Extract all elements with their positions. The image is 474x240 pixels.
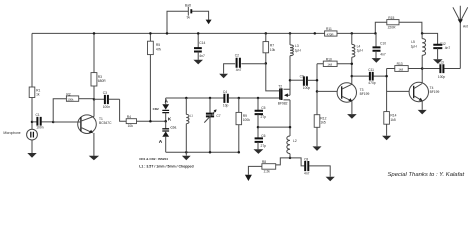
svg-text:C2: C2 bbox=[235, 54, 239, 58]
inductor L4 bbox=[351, 32, 364, 57]
capacitor C4 bbox=[223, 90, 229, 107]
resistor R1 bbox=[29, 87, 40, 98]
wire tank top rail bbox=[166, 97, 224, 99]
transistor T3 BF199 bbox=[337, 83, 369, 102]
resistor R5 bbox=[148, 32, 162, 54]
svg-text:4n7: 4n7 bbox=[236, 68, 242, 72]
ground T3 emitter bbox=[347, 114, 357, 119]
svg-text:1μH: 1μH bbox=[411, 44, 418, 48]
wire R8 to ground bbox=[248, 166, 262, 174]
microphone MIC1 bbox=[3, 129, 37, 140]
node K bbox=[164, 120, 167, 123]
svg-text:1k: 1k bbox=[36, 93, 40, 97]
ground tank rail bbox=[182, 151, 191, 160]
resistor R9 bbox=[236, 97, 250, 154]
capacitor C9 bbox=[300, 75, 311, 90]
capacitor C5 bbox=[255, 97, 267, 119]
transistor T1 BC547C bbox=[53, 115, 112, 134]
ground mic bbox=[31, 140, 33, 153]
capacitor C1 bbox=[32, 113, 53, 130]
svg-text:A: A bbox=[159, 139, 163, 145]
wire T2 source down bbox=[289, 100, 291, 136]
svg-text:C11: C11 bbox=[368, 68, 374, 72]
capacitor C11 bbox=[352, 68, 387, 85]
svg-text:CD1 & CD2 : BB204: CD1 & CD2 : BB204 bbox=[139, 157, 168, 161]
svg-text:C1: C1 bbox=[36, 113, 40, 117]
svg-text:C6: C6 bbox=[261, 134, 265, 138]
svg-text:10k: 10k bbox=[270, 48, 276, 52]
svg-text:R13: R13 bbox=[397, 62, 403, 66]
svg-text:L1 : 3.5T / 1mm / 5mm / Choppe: L1 : 3.5T / 1mm / 5mm / Chopped bbox=[139, 164, 193, 168]
wire T3 base lead bbox=[317, 90, 337, 92]
wire R3 to collector node bbox=[93, 86, 95, 99]
wire T1 collector bbox=[93, 99, 95, 116]
node C11/base junction bbox=[385, 75, 388, 78]
resistor R12 bbox=[314, 115, 326, 128]
inductor L5 bbox=[411, 32, 426, 55]
wire T4 emitter bbox=[421, 101, 423, 110]
svg-text:Ant: Ant bbox=[463, 24, 468, 28]
wire R15 raised loop bbox=[375, 22, 422, 33]
wire T3 base column bbox=[316, 64, 318, 115]
node C11 junction bbox=[351, 75, 354, 78]
node T1 base junction bbox=[52, 121, 55, 124]
node K wire junction bbox=[149, 120, 152, 123]
svg-text:4n7: 4n7 bbox=[445, 46, 451, 50]
svg-text:C7: C7 bbox=[216, 114, 220, 118]
svg-text:100p: 100p bbox=[303, 86, 311, 90]
svg-text:C4: C4 bbox=[223, 90, 227, 94]
capacitor C3 bbox=[94, 91, 120, 109]
node C2 tap bbox=[265, 62, 268, 65]
svg-text:100k: 100k bbox=[67, 97, 74, 101]
wire to R8 bbox=[276, 158, 290, 165]
svg-text:Batt: Batt bbox=[185, 3, 191, 7]
svg-text:47k: 47k bbox=[156, 48, 162, 52]
svg-text:R2: R2 bbox=[66, 92, 70, 96]
varactor CD2 bbox=[153, 98, 170, 113]
ground T4 emitter bbox=[418, 110, 427, 115]
svg-text:4n7: 4n7 bbox=[199, 54, 205, 58]
wire C9 to T3 base column bbox=[308, 79, 317, 81]
wire T4 base column bbox=[386, 69, 388, 112]
svg-text:L2: L2 bbox=[293, 139, 297, 143]
wire R4 to K node bbox=[137, 120, 166, 122]
svg-text:1μH: 1μH bbox=[357, 49, 364, 53]
wire CD2 to K bbox=[165, 113, 167, 122]
svg-text:100p: 100p bbox=[438, 75, 446, 79]
svg-text:1k5: 1k5 bbox=[390, 118, 395, 122]
inductor L1 bbox=[185, 97, 193, 152]
ground R12 bbox=[313, 146, 322, 151]
svg-text:CD2: CD2 bbox=[153, 107, 159, 111]
svg-text:220R: 220R bbox=[388, 25, 397, 29]
wire R1 to microphone bbox=[31, 98, 33, 130]
capacitor C8 bbox=[304, 158, 310, 176]
inductor L3 bbox=[289, 32, 302, 80]
svg-text:1k5: 1k5 bbox=[320, 121, 325, 125]
svg-text:L1: L1 bbox=[190, 114, 194, 118]
svg-text:BF199: BF199 bbox=[430, 90, 440, 94]
node T4 collector/C13 junction bbox=[421, 67, 424, 70]
wire top supply bus bbox=[32, 32, 375, 34]
wire C5 to C6 bbox=[257, 114, 259, 137]
battery Batt 9v bbox=[166, 3, 212, 34]
wire L2 bottom bbox=[289, 154, 291, 158]
node R10 junction bbox=[351, 62, 354, 64]
svg-text:4n7: 4n7 bbox=[380, 52, 386, 56]
svg-text:1μH: 1μH bbox=[295, 48, 302, 52]
svg-text:BF982: BF982 bbox=[278, 102, 288, 106]
node source tap bbox=[289, 126, 292, 129]
resistor R2 bbox=[66, 92, 78, 101]
resistor R15 bbox=[387, 16, 399, 29]
wire R2 to collector node bbox=[79, 98, 94, 100]
svg-text:R11: R11 bbox=[326, 27, 332, 31]
wire bus drop to R3 bbox=[93, 33, 95, 72]
svg-text:R12: R12 bbox=[320, 116, 326, 120]
svg-text:C13: C13 bbox=[438, 61, 444, 65]
svg-text:27p: 27p bbox=[261, 144, 267, 148]
svg-text:R7: R7 bbox=[270, 44, 274, 48]
node mic/C1 junction bbox=[31, 121, 34, 124]
svg-text:BC547C: BC547C bbox=[99, 121, 112, 125]
node C9 junction bbox=[316, 79, 319, 82]
wire to C8 bbox=[290, 158, 304, 166]
svg-text:C8: C8 bbox=[304, 158, 308, 162]
svg-text:T2: T2 bbox=[278, 84, 282, 88]
inductor L2 bbox=[287, 136, 297, 154]
wire C3 down to R4 bbox=[120, 99, 127, 121]
resistor R3 bbox=[91, 73, 106, 86]
ground C8 bbox=[326, 177, 335, 182]
wire CD1 to bottom rail bbox=[165, 137, 167, 152]
svg-text:A: A bbox=[165, 99, 169, 105]
trimmer capacitor C7 bbox=[204, 97, 220, 154]
resistor R14 bbox=[384, 112, 397, 125]
wire C5/C6 tap to T2 source bbox=[258, 126, 290, 128]
wire T1 emitter bbox=[93, 133, 95, 156]
svg-text:100n: 100n bbox=[103, 105, 111, 109]
wire R5 to K node bbox=[149, 55, 151, 122]
resistor R13 bbox=[387, 62, 423, 72]
svg-text:4n7: 4n7 bbox=[304, 172, 310, 176]
wire gate line C4 to T2 bbox=[229, 97, 280, 99]
node T2 drain junction bbox=[289, 79, 292, 82]
svg-text:R3: R3 bbox=[98, 75, 102, 79]
svg-text:C9: C9 bbox=[300, 75, 304, 79]
svg-text:K: K bbox=[168, 117, 172, 123]
svg-text:R9: R9 bbox=[243, 114, 247, 118]
svg-text:C14: C14 bbox=[199, 41, 205, 45]
svg-text:1k8: 1k8 bbox=[398, 67, 403, 71]
node bus R3 bbox=[93, 32, 96, 35]
svg-text:680R: 680R bbox=[98, 79, 107, 83]
svg-text:100k: 100k bbox=[243, 118, 251, 122]
svg-text:C3: C3 bbox=[103, 91, 107, 95]
svg-text:C5: C5 bbox=[261, 106, 265, 110]
wire base riser to R2 bbox=[53, 99, 66, 122]
resistor R7 bbox=[263, 32, 276, 53]
svg-text:L4: L4 bbox=[357, 44, 361, 48]
wire T3 emitter bbox=[351, 101, 353, 114]
svg-text:Special Thanks to : Y. Kalafat: Special Thanks to : Y. Kalafat bbox=[388, 172, 465, 178]
svg-text:R5: R5 bbox=[156, 43, 160, 47]
svg-text:R10: R10 bbox=[326, 57, 332, 61]
svg-text:9v: 9v bbox=[187, 16, 191, 20]
wire drain line to C9 bbox=[290, 79, 303, 81]
node T3 base junction bbox=[316, 90, 319, 93]
resistor R8 bbox=[262, 160, 276, 173]
svg-text:27p: 27p bbox=[261, 115, 267, 119]
ground R14 bbox=[382, 136, 391, 141]
svg-text:CD1: CD1 bbox=[170, 126, 176, 130]
wire left column to R1 bbox=[31, 33, 33, 87]
wire T4 base lead bbox=[387, 90, 410, 92]
svg-text:10k: 10k bbox=[128, 124, 134, 128]
ground R8 bbox=[245, 175, 252, 181]
node C5/C6 junction bbox=[257, 126, 260, 129]
wire R7 to gate2 bbox=[266, 53, 280, 91]
wire R14 to ground bbox=[386, 124, 388, 136]
svg-text:BF199: BF199 bbox=[360, 92, 370, 96]
wire R12 to ground bbox=[316, 127, 318, 146]
capacitor C12 bbox=[433, 42, 450, 64]
capacitor C10 bbox=[372, 32, 387, 63]
svg-text:R8: R8 bbox=[262, 160, 266, 164]
svg-text:R4: R4 bbox=[127, 115, 131, 119]
resistor R4 bbox=[126, 115, 136, 128]
wire bus right tail to C12 bbox=[422, 33, 438, 44]
svg-text:L5: L5 bbox=[411, 40, 415, 44]
wire L5 to T4 collector bbox=[421, 55, 423, 82]
capacitor C13 bbox=[422, 61, 460, 79]
svg-text:L3: L3 bbox=[295, 44, 299, 48]
capacitor C14 bbox=[193, 32, 205, 64]
transistor T2 BF982 bbox=[278, 80, 290, 105]
svg-text:100n: 100n bbox=[36, 126, 44, 130]
wire L4 to T3 collector bbox=[351, 57, 353, 84]
ground T1 emitter bbox=[89, 156, 99, 160]
node collector T1 bbox=[93, 98, 96, 101]
svg-text:R14: R14 bbox=[390, 114, 396, 118]
varactor CD1 bbox=[159, 121, 177, 145]
node bus R11 tap bbox=[314, 32, 317, 35]
resistor R11 bbox=[325, 27, 337, 37]
svg-text:1k8: 1k8 bbox=[327, 63, 332, 67]
svg-text:Microphone: Microphone bbox=[3, 131, 20, 135]
node L2 bottom junction bbox=[289, 157, 292, 160]
svg-text:470p: 470p bbox=[368, 81, 376, 85]
svg-text:10p: 10p bbox=[223, 103, 229, 107]
capacitor C6 bbox=[254, 134, 267, 154]
svg-text:R15: R15 bbox=[388, 16, 394, 20]
svg-text:C10: C10 bbox=[380, 42, 386, 46]
svg-text:470R: 470R bbox=[327, 33, 334, 37]
wire tank bottom rail bbox=[166, 151, 239, 153]
capacitor C2 bbox=[219, 54, 266, 79]
wire C8 to ground bbox=[309, 166, 330, 177]
antenna Ant bbox=[453, 6, 468, 69]
transistor T4 BF199 bbox=[409, 82, 439, 101]
svg-text:2.2k: 2.2k bbox=[264, 170, 271, 174]
resistor R10 bbox=[317, 57, 352, 66]
